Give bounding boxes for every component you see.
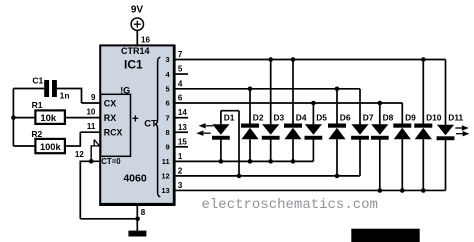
svg-text:16: 16 (141, 35, 150, 44)
svg-text:11: 11 (87, 122, 96, 131)
svg-text:7: 7 (178, 50, 183, 59)
svg-text:RCX: RCX (104, 128, 123, 138)
svg-text:8: 8 (166, 128, 170, 137)
svg-text:CT: CT (144, 118, 157, 129)
svg-text:RX: RX (104, 113, 117, 123)
svg-text:10k: 10k (40, 113, 57, 124)
svg-text:5: 5 (178, 65, 183, 74)
svg-text:6: 6 (166, 99, 170, 108)
svg-text:CX: CX (104, 98, 117, 108)
svg-text:2: 2 (178, 166, 183, 175)
svg-text:5: 5 (166, 85, 170, 94)
svg-text:D5: D5 (316, 112, 327, 122)
svg-text:+: + (132, 114, 139, 126)
svg-text:9V: 9V (131, 4, 144, 15)
svg-text:12: 12 (75, 150, 84, 159)
svg-text:IC1: IC1 (124, 58, 143, 72)
svg-text:D7: D7 (363, 112, 374, 122)
svg-text:C1: C1 (32, 75, 43, 85)
svg-text:D3: D3 (274, 112, 285, 122)
svg-text:!G: !G (120, 86, 130, 96)
svg-text:R2: R2 (31, 129, 42, 139)
svg-text:4: 4 (178, 79, 183, 88)
svg-text:electroschematics.com: electroschematics.com (202, 197, 378, 213)
svg-text:7: 7 (166, 113, 170, 122)
svg-text:D9: D9 (405, 112, 416, 122)
svg-text:11: 11 (162, 157, 170, 166)
svg-text:15: 15 (178, 137, 187, 146)
svg-text:D6: D6 (340, 112, 351, 122)
svg-text:1: 1 (178, 152, 183, 161)
svg-text:14: 14 (178, 108, 187, 117)
svg-text:9: 9 (166, 143, 170, 152)
svg-text:CT=0: CT=0 (101, 157, 121, 166)
svg-text:100k: 100k (40, 142, 62, 152)
svg-text:12: 12 (161, 172, 169, 181)
svg-text:R1: R1 (32, 100, 43, 110)
svg-text:D10: D10 (426, 112, 442, 122)
svg-text:10: 10 (86, 108, 95, 117)
svg-text:CTR14: CTR14 (121, 46, 150, 56)
svg-text:13: 13 (161, 186, 169, 195)
svg-text:6: 6 (178, 94, 183, 103)
svg-text:4060: 4060 (123, 173, 147, 185)
svg-text:13: 13 (178, 123, 187, 132)
svg-text:D2: D2 (253, 112, 264, 122)
svg-text:D1: D1 (224, 112, 235, 122)
svg-text:3: 3 (178, 181, 183, 190)
svg-text:1n: 1n (60, 90, 70, 100)
svg-text:D8: D8 (383, 112, 394, 122)
svg-text:8: 8 (141, 208, 146, 217)
svg-text:D4: D4 (296, 112, 307, 122)
svg-text:D11: D11 (448, 112, 463, 122)
svg-text:9: 9 (91, 93, 96, 102)
svg-text:3: 3 (166, 55, 170, 64)
